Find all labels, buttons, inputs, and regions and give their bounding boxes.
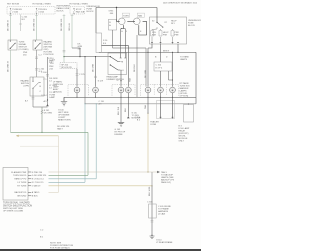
SECTION: lower horizontal wires bbox=[11, 126, 89, 192]
footer note left bbox=[50, 243, 74, 250]
junction dot x47 bbox=[47, 99, 48, 100]
wire V x137 long bbox=[136, 35, 138, 97]
wire from fuse F3 down bbox=[71, 14, 73, 48]
connector ticks x36 bbox=[35, 57, 38, 70]
label under dimmer box bbox=[107, 75, 125, 81]
lamp L6 bbox=[158, 87, 164, 97]
svg-text:(OFF): (OFF) bbox=[23, 86, 29, 88]
svg-text:J: J bbox=[126, 31, 127, 33]
fuse F1 TURN 10A bbox=[10, 8, 11, 14]
wire V x148 from box to lamp R1 bbox=[147, 48, 149, 87]
svg-text:K PNK 234: K PNK 234 bbox=[32, 172, 43, 174]
right connector rect R1 bbox=[157, 101, 175, 119]
svg-text:BACKUP FD: BACKUP FD bbox=[14, 191, 26, 194]
wire DK GRN from fuse F2 down bbox=[36, 14, 38, 40]
label under box bbox=[3, 202, 32, 213]
label box S102 bbox=[154, 62, 172, 71]
svg-text:TAN: TAN bbox=[144, 104, 147, 109]
page header bbox=[163, 1, 198, 4]
wire V x85 upper dark from dimmer feed bbox=[84, 57, 86, 104]
relay K1 label box bbox=[122, 13, 129, 17]
svg-text:DK GRN 39: DK GRN 39 bbox=[8, 19, 10, 31]
label left of splice box bbox=[48, 58, 54, 65]
lamp L5 bbox=[145, 87, 151, 97]
wire row1 long to right arrow bbox=[49, 171, 158, 173]
svg-text:LAMPS: LAMPS bbox=[180, 58, 188, 61]
svg-text:LAMP: LAMP bbox=[49, 96, 55, 99]
SW3 label left bbox=[20, 80, 29, 88]
wire DK GRN from fuse F1 down bbox=[10, 14, 12, 40]
wire V x196 down right edge bbox=[195, 52, 197, 104]
wire below SW2 bbox=[36, 50, 38, 77]
labels right of x47 bbox=[49, 60, 58, 100]
switch SW1 blade bbox=[10, 43, 15, 49]
hazard flasher switch box SW3 bbox=[30, 77, 44, 96]
wire row5 tan to x152 bbox=[49, 185, 153, 187]
ground G100 stub bbox=[63, 97, 65, 101]
SECTION: connector box x96 and dimmer switch bbox=[96, 33, 132, 87]
node at x85 on dimmer feed bbox=[84, 56, 85, 57]
ground G110 label bbox=[156, 240, 173, 245]
tan wire H y135.8 bbox=[16, 135, 59, 137]
connector ticks below fuse boxes bbox=[9, 15, 73, 17]
SECTION: bottom right ground path bbox=[147, 172, 173, 244]
svg-text:ONLY: ONLY bbox=[179, 141, 185, 143]
ground G100 label bbox=[58, 109, 71, 121]
pin row 3 bbox=[28, 178, 31, 180]
svg-text:PAGE 8-2): PAGE 8-2) bbox=[161, 181, 171, 184]
wire x95.5 down to lamp L2 bbox=[95, 57, 97, 87]
svg-text:FOR FUSE DETAILS: FOR FUSE DETAILS bbox=[50, 246, 70, 249]
svg-text:BLK 1450: BLK 1450 bbox=[149, 186, 151, 196]
label HOT AT ALL TIMES right bbox=[70, 3, 89, 6]
svg-text:A TAN 9: A TAN 9 bbox=[32, 191, 40, 194]
svg-text:HOT AT ALL TIMES: HOT AT ALL TIMES bbox=[33, 3, 52, 6]
junction dot x64 bbox=[63, 56, 64, 57]
svg-text:DK GRN 320: DK GRN 320 bbox=[61, 18, 63, 31]
svg-text:BLK 150: BLK 150 bbox=[118, 106, 120, 115]
tan wire V x58.5 bbox=[58, 136, 60, 193]
splice dot below dimmer with leader bbox=[120, 80, 121, 81]
svg-text:(CLOSED): (CLOSED) bbox=[19, 49, 29, 51]
switch SW2 blade bbox=[35, 43, 40, 49]
svg-text:RLY: RLY bbox=[171, 23, 176, 25]
relay blade inside bbox=[156, 22, 157, 23]
wire V x172.5 from H to lamp bbox=[172, 52, 174, 86]
wires into dimmer top bbox=[121, 29, 126, 58]
wire jog x72 to x80 bbox=[72, 48, 80, 57]
svg-text:TURN: TURN bbox=[123, 15, 129, 17]
SECTION: left vertical wires and switches bbox=[8, 14, 74, 133]
svg-text:4 15A: 4 15A bbox=[38, 11, 44, 14]
svg-text:HAZ: HAZ bbox=[138, 14, 143, 17]
wire V x146.5 bbox=[139, 21, 147, 35]
ground G103 symbol bbox=[118, 122, 124, 126]
wire V x160.5 below label box bbox=[160, 71, 162, 87]
green wire V x88 down bbox=[87, 132, 89, 175]
label text right of y52 wire bbox=[180, 55, 190, 61]
svg-text:RT TURN: RT TURN bbox=[17, 186, 27, 188]
fuse F3 STOP HAZ 15A bbox=[73, 8, 74, 14]
svg-text:E 3 F 4: E 3 F 4 bbox=[156, 68, 164, 70]
teal wire V x96.2 bbox=[95, 104, 97, 179]
wire H y56.6 to dimmer bbox=[64, 56, 110, 58]
svg-text:DK BLU: DK BLU bbox=[134, 64, 136, 72]
wire H y52.3 long bbox=[99, 51, 196, 53]
SW3 contacts bbox=[32, 81, 33, 82]
label I/P fuse block bbox=[57, 6, 71, 13]
bottom terminals bbox=[151, 42, 179, 44]
SECTION: center fuse wires and splice pack bbox=[48, 14, 110, 86]
wire H y45.3 to x128 bbox=[102, 44, 129, 46]
svg-text:FLASHER PWR: FLASHER PWR bbox=[11, 171, 27, 174]
footer bar bbox=[0, 249, 201, 251]
wire V x123.5 below K1 bbox=[123, 25, 125, 29]
wire DK BLU from left of box2 down bbox=[63, 14, 65, 62]
wire label DK GRN 39 (rotated) bbox=[8, 19, 10, 31]
svg-text:B BLK: B BLK bbox=[32, 196, 39, 198]
SECTION: right lamp feeds bbox=[99, 44, 196, 104]
svg-text:DK GRN: DK GRN bbox=[44, 113, 53, 115]
wire below SW3 bbox=[32, 96, 34, 107]
label above green corner bbox=[57, 126, 70, 131]
svg-text:F LT BLU 15: F LT BLU 15 bbox=[32, 182, 44, 184]
svg-text:BLK: BLK bbox=[125, 107, 127, 112]
svg-text:DK GRN 39: DK GRN 39 bbox=[8, 60, 10, 72]
label left lamps bbox=[53, 81, 63, 94]
wire V x128.3 to splice arrow bbox=[127, 97, 129, 116]
sub box at x108 bbox=[109, 19, 117, 30]
svg-text:2003 CHEVROLET SILVERADO 1500: 2003 CHEVROLET SILVERADO 1500 bbox=[163, 1, 198, 4]
connector ticks below SW3 bbox=[32, 98, 35, 99]
pin row 6 bbox=[28, 191, 31, 193]
label hazard switch bbox=[44, 40, 54, 56]
wire H y107 bbox=[33, 106, 48, 108]
faint wire H y146 bbox=[20, 145, 59, 147]
svg-text:J TAN 19: J TAN 19 bbox=[32, 185, 41, 188]
svg-text:LT REAR FRAME: LT REAR FRAME bbox=[156, 241, 173, 244]
svg-text:E LT BLU 14: E LT BLU 14 bbox=[32, 179, 45, 181]
wire V x152 black to ground bbox=[151, 186, 153, 236]
wire V x157 into box bbox=[156, 8, 158, 23]
svg-text:DK GRN: DK GRN bbox=[145, 69, 147, 78]
junction dots bottom bbox=[147, 171, 148, 172]
svg-text:ENGINE: ENGINE bbox=[115, 134, 124, 136]
lamp L1 left park/turn bbox=[74, 87, 80, 97]
connector ticks on green wires bbox=[63, 51, 66, 52]
svg-text:TAN: TAN bbox=[129, 77, 132, 82]
label wire codes near x77 bbox=[78, 44, 83, 51]
internal wires to bottom bbox=[152, 27, 173, 44]
pin row 1 bbox=[28, 171, 31, 173]
connector ticks below inline box bbox=[151, 221, 154, 222]
labels above label box bbox=[155, 57, 168, 59]
svg-text:TAN 9: TAN 9 bbox=[57, 128, 64, 131]
SECTION: footer bbox=[0, 230, 201, 251]
relay coil circle K1 bbox=[119, 18, 126, 25]
teal wire V x85 bbox=[84, 104, 86, 183]
svg-text:OF STEER COLUMN: OF STEER COLUMN bbox=[3, 211, 23, 213]
switch SW2 box bbox=[33, 40, 42, 50]
svg-text:HAZ 15A: HAZ 15A bbox=[76, 11, 85, 14]
tan arrow at left end bbox=[16, 135, 18, 137]
svg-text:BRN 9: BRN 9 bbox=[163, 50, 170, 52]
pin row 5 bbox=[28, 185, 31, 187]
wire V x96 down to connector box bbox=[95, 8, 97, 34]
junction dots on bus1 bbox=[76, 97, 77, 98]
wire V x42 down to green bus bbox=[41, 107, 43, 132]
wire V x99 into dimmer feed bbox=[98, 51, 100, 53]
svg-text:DK GRN: DK GRN bbox=[93, 63, 95, 72]
labels left of x47 bbox=[41, 72, 47, 103]
off page arrow right with label bbox=[157, 171, 160, 173]
dimmer input terminals bbox=[120, 57, 127, 59]
label HOT AT ALL TIMES left bbox=[33, 3, 52, 6]
svg-text:GROUND: GROUND bbox=[17, 196, 27, 198]
fuse block dashed box 2 bbox=[70, 7, 85, 15]
splice pack dashed box bbox=[60, 63, 77, 69]
lamp L4 bbox=[125, 87, 131, 97]
wire row2 dark green to x88 bbox=[49, 174, 89, 176]
relay K2 label box bbox=[137, 13, 144, 17]
svg-text:FSE: FSE bbox=[163, 35, 168, 37]
right box label bbox=[179, 126, 190, 143]
wire label TAN rotated at x128 bbox=[129, 77, 132, 82]
footer note right2 bbox=[40, 230, 44, 239]
label turn signal switch bbox=[19, 41, 29, 51]
node at x148 on park feed bbox=[147, 52, 148, 53]
ground G103 label bbox=[115, 129, 126, 136]
svg-text:BLOCK: BLOCK bbox=[57, 11, 65, 13]
label HOT IN RUN bbox=[7, 4, 20, 6]
SECTION: underhood fuse block box top right bbox=[150, 8, 203, 45]
svg-text:C 125: C 125 bbox=[79, 74, 85, 76]
wire V x121 inside to bottom bbox=[120, 70, 122, 87]
ground bus y97.3 bbox=[64, 96, 196, 98]
pin row 4 bbox=[28, 181, 31, 183]
SECTION: ground buses bbox=[58, 57, 196, 183]
wire DK GRN below SW1 long bbox=[10, 50, 12, 132]
svg-text:2 10A: 2 10A bbox=[12, 11, 18, 14]
headlamp dimmer switch box bbox=[108, 53, 127, 75]
svg-text:FSE: FSE bbox=[175, 35, 180, 37]
svg-text:(2 CAV): (2 CAV) bbox=[158, 212, 166, 215]
wire V x152 jog to x148 bbox=[148, 44, 152, 48]
wire V x128.3 down to lamp bbox=[127, 45, 129, 86]
svg-text:HOT IN RUN: HOT IN RUN bbox=[7, 4, 20, 6]
pin row 7 bbox=[28, 195, 31, 197]
wire V x152 tan segment bbox=[151, 172, 153, 186]
fuse block dashed box 1 bbox=[7, 7, 55, 15]
wire column x47 bbox=[47, 57, 49, 105]
svg-text:POSITION: POSITION bbox=[44, 54, 54, 56]
splice marks x42 bbox=[41, 110, 43, 114]
svg-text:(2 BULB): (2 BULB) bbox=[53, 92, 62, 94]
dashed lamp enclosure middle bbox=[112, 84, 135, 95]
svg-text:LF TURN: LF TURN bbox=[18, 182, 27, 184]
label underhood fuse block right bbox=[87, 6, 101, 13]
tan wire V x148 long bbox=[147, 113, 149, 172]
svg-text:TURN SIGNAL / HAZARD: TURN SIGNAL / HAZARD bbox=[3, 202, 30, 205]
connector ticks x77 bbox=[76, 74, 79, 75]
connector label below lamp L2 bbox=[99, 101, 105, 106]
svg-text:BLOCK: BLOCK bbox=[87, 11, 95, 13]
connector box B1 bbox=[3, 168, 28, 201]
lamp L7 bbox=[170, 87, 176, 97]
svg-text:G DK GRN 320: G DK GRN 320 bbox=[32, 175, 47, 177]
label right lamps bbox=[180, 82, 190, 98]
wires through R1 bbox=[161, 97, 173, 118]
junction dot x80 bbox=[79, 56, 80, 57]
svg-text:SWITCH (MULTIFUNCTION: SWITCH (MULTIFUNCTION bbox=[3, 205, 32, 207]
green wire H y132.4 bbox=[11, 131, 89, 133]
wire H y21.3 links bbox=[117, 19, 147, 21]
internal fuse labels bbox=[152, 32, 179, 37]
wire V x160.5 from box into label box bbox=[160, 44, 162, 62]
wire row4 teal to x85 bbox=[49, 181, 86, 183]
tiny terminal labels bbox=[121, 31, 142, 33]
svg-text:NEAR HORN: NEAR HORN bbox=[58, 118, 71, 121]
wire V x121 to ground G103 bbox=[120, 97, 122, 122]
SECTION: top fuse boxes bbox=[7, 1, 198, 14]
arrow down at x47 bottom bbox=[46, 104, 49, 106]
SECTION: bottom left connector box bbox=[3, 168, 175, 213]
right box R2 bbox=[184, 105, 194, 123]
label pair above SW3 bbox=[23, 52, 28, 57]
junction dot x95.5 bbox=[95, 56, 96, 57]
park bus y103.8 bbox=[85, 103, 196, 105]
svg-text:C 100: C 100 bbox=[41, 72, 47, 74]
dashed lamp enclosure left bbox=[68, 84, 89, 95]
svg-text:S 129: S 129 bbox=[98, 81, 104, 83]
label right of box bbox=[188, 20, 202, 27]
wire stub C at x20 bbox=[20, 14, 22, 31]
wire V x178 stub bbox=[177, 44, 179, 52]
wire from splice pack to lamp L1 bbox=[76, 69, 78, 87]
SECTION: lamps row bbox=[53, 81, 190, 98]
svg-text:DK GRN 320: DK GRN 320 bbox=[34, 18, 36, 31]
wire supply H y7.5 bbox=[96, 7, 157, 9]
junction dot x42 on green bus bbox=[41, 132, 42, 133]
wire row3 teal to x96.2 bbox=[49, 178, 97, 180]
wire V x146 to right lamp bbox=[145, 48, 147, 87]
sub box output wire bbox=[113, 30, 147, 48]
lamp L2 bbox=[93, 87, 99, 97]
connector tick x20 bbox=[19, 23, 22, 25]
ground G110 junction dot bbox=[151, 235, 152, 236]
svg-text:LO: LO bbox=[121, 70, 124, 72]
dimmer contacts bbox=[110, 56, 111, 57]
svg-text:TURN SIG FD: TURN SIG FD bbox=[13, 175, 27, 177]
ground G100 symbol bbox=[61, 102, 67, 106]
switch SW1 box bbox=[8, 40, 17, 50]
ground G110 symbol bbox=[150, 236, 155, 239]
connector box N bbox=[96, 33, 102, 53]
junction dot x116.5 bbox=[116, 7, 117, 8]
wire from label box second output bbox=[169, 71, 173, 80]
pin row 2 bbox=[28, 174, 31, 176]
svg-text:C 305: C 305 bbox=[147, 202, 153, 204]
wire row6 light to x58.5 bbox=[49, 191, 59, 193]
svg-text:CONN: CONN bbox=[150, 124, 157, 126]
underhood fuse block U3 box bbox=[150, 17, 187, 44]
svg-text:ORG 40: ORG 40 bbox=[69, 23, 71, 31]
wire V x148 below lamp bbox=[147, 97, 149, 113]
fuse F2 TRN SIG 15A bbox=[36, 8, 37, 14]
connector ticks x47 bbox=[46, 75, 49, 76]
svg-text:HOT AT ALL TIMES: HOT AT ALL TIMES bbox=[70, 3, 89, 6]
wire V x116 bbox=[116, 8, 118, 20]
svg-text:SPLICE PK: SPLICE PK bbox=[61, 67, 72, 69]
lamp L3 bbox=[118, 87, 124, 97]
SECTION: top center supply and relays bbox=[96, 7, 157, 98]
svg-text:C 100: C 100 bbox=[156, 65, 162, 67]
svg-text:BLOCK: BLOCK bbox=[188, 25, 196, 27]
svg-text:PARK LP FD: PARK LP FD bbox=[14, 178, 26, 181]
dashed lamp enclosure right bbox=[141, 84, 179, 95]
inline connector box G bbox=[149, 204, 157, 218]
relay coil circle K2 bbox=[134, 18, 141, 25]
